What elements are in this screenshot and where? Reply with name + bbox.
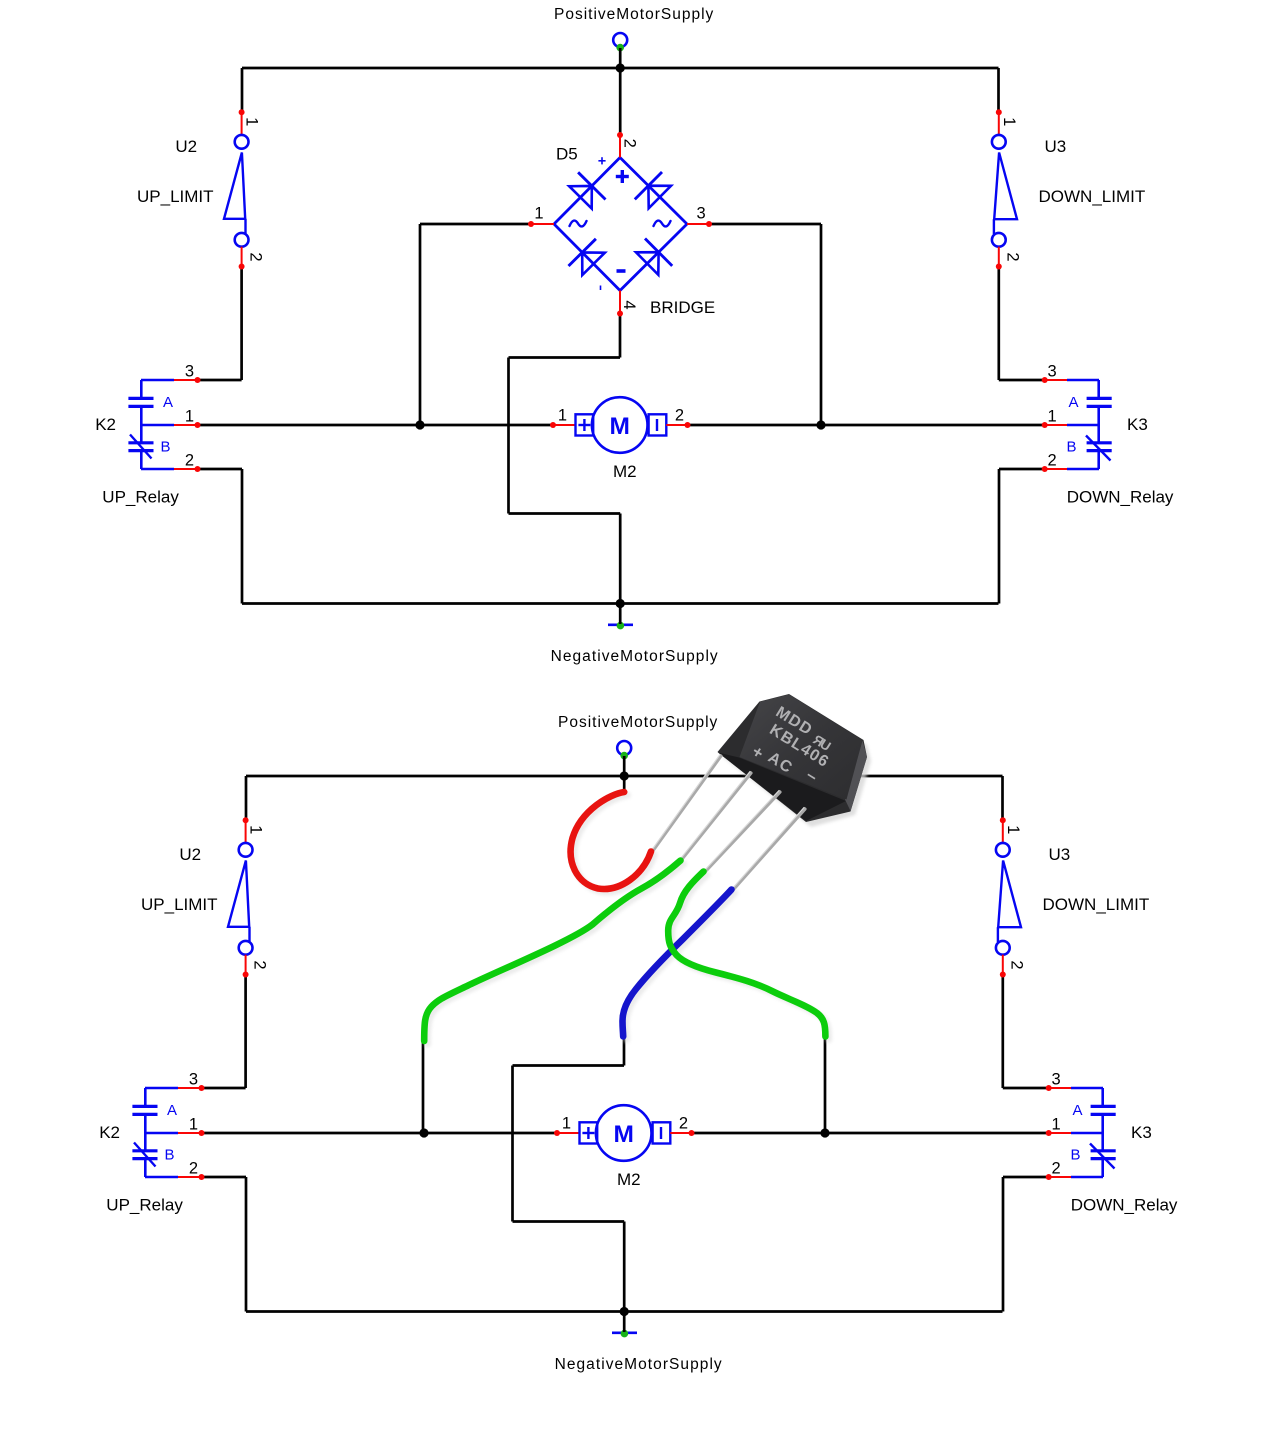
- wire bottom rail to negative terminal: [619, 604, 622, 625]
- svg-text:1: 1: [1000, 117, 1018, 126]
- bridge D5 AC tilde right: [654, 221, 671, 227]
- power port NegativeMotorSupply bar: [612, 1332, 637, 1335]
- bridge D5 diode (AC2 to +): [635, 172, 662, 199]
- wire left trunk to K2 pin 3: [202, 1087, 246, 1090]
- wire left trunk to bottom rail: [241, 469, 244, 604]
- svg-text:UP_LIMIT: UP_LIMIT: [141, 895, 218, 914]
- svg-text:PositiveMotorSupply: PositiveMotorSupply: [554, 6, 714, 23]
- svg-text:B: B: [165, 1147, 175, 1164]
- relay K3 pin 1 bar: [1071, 1132, 1103, 1135]
- switch U3 pin 2 stub: [1002, 955, 1004, 975]
- wire positive terminal to top rail: [623, 756, 626, 776]
- power port PositiveMotorSupply terminal dot: [620, 752, 628, 760]
- svg-text:DOWN_Relay: DOWN_Relay: [1071, 1195, 1178, 1214]
- motor M2 pin 1 stub: [557, 1132, 580, 1134]
- svg-text:UP_Relay: UP_Relay: [102, 487, 179, 506]
- bridge D5 pin 1 stub: [531, 223, 554, 225]
- relay K3 pin 3 bar: [1067, 379, 1099, 382]
- relay K2 pin 2 stub: [174, 468, 198, 470]
- wire node AC1 riser (to green wire): [422, 1041, 425, 1133]
- svg-text:1: 1: [1052, 1116, 1061, 1134]
- junction bottom rail / supply: [620, 1307, 629, 1316]
- switch U3 pin 1 stub: [1002, 820, 1004, 843]
- switch U3 terminal circle 2: [996, 941, 1010, 955]
- relay K2 pin 1 bar: [141, 424, 174, 427]
- switch U2 terminal circle 2: [235, 233, 249, 247]
- switch U2 actuator wedge: [224, 153, 245, 219]
- bridge D5 AC tilde left: [570, 221, 587, 227]
- svg-text:BRIDGE: BRIDGE: [650, 298, 715, 317]
- wire bottom rail to negative terminal: [623, 1312, 626, 1333]
- relay K3 contact B plates: [1091, 1149, 1116, 1152]
- wire bridge pin 1 to node AC1: [420, 223, 531, 226]
- wire right trunk to bottom rail: [1002, 1177, 1005, 1312]
- svg-text:A: A: [1069, 394, 1079, 411]
- svg-text:A: A: [167, 1102, 177, 1119]
- wire top rail to U3 pin 1: [1001, 776, 1004, 821]
- bridge D5 pin 2 stub: [619, 135, 621, 158]
- bridge D5 diode (- to AC2): [645, 239, 672, 266]
- svg-text:A: A: [1073, 1102, 1083, 1119]
- bridge D5 diode (- to AC1): [569, 239, 596, 266]
- wire bottom rail: [246, 1310, 1003, 1313]
- svg-text:U3: U3: [1049, 845, 1071, 864]
- svg-text:1: 1: [189, 1116, 198, 1134]
- switch U2 pin 2 stub: [241, 247, 243, 267]
- relay K3 contact B slash: [1086, 436, 1111, 461]
- relay K2 pin 3 bar: [141, 379, 174, 382]
- relay K3 pin 2 stub: [1049, 1176, 1071, 1178]
- bridge D5 minus mark (inner): [617, 269, 626, 273]
- KBL406 leg 1: [654, 756, 722, 850]
- svg-text:1: 1: [243, 117, 261, 126]
- switch U3 pin 1 stub: [998, 112, 1000, 135]
- svg-text:4: 4: [620, 300, 638, 309]
- relay K2 contact B plates: [128, 441, 153, 444]
- relay K2 contact B slash: [130, 435, 152, 459]
- svg-text:3: 3: [1052, 1071, 1061, 1089]
- motor M2 left terminal box: [576, 414, 594, 435]
- svg-text:M: M: [613, 1121, 633, 1148]
- KBL406 leg 4: [733, 809, 806, 891]
- junction node AC1 / motor row: [419, 1128, 428, 1137]
- switch U3 terminal circle 1: [992, 135, 1006, 149]
- svg-text:B: B: [1067, 439, 1077, 456]
- wire top rail to bridge pin 2: [619, 68, 622, 135]
- svg-text:K2: K2: [95, 415, 116, 434]
- hookup wire red (positive to bridge +): [571, 792, 651, 889]
- hookup wire green (bridge AC2 to node AC2): [668, 872, 825, 1037]
- svg-text:1: 1: [1048, 408, 1057, 426]
- relay K3 vertical lead: [1097, 380, 1100, 398]
- relay K2 vertical lead: [144, 1088, 147, 1106]
- wire right trunk to K3 pin 3: [1003, 1087, 1049, 1090]
- svg-text:UP_Relay: UP_Relay: [106, 1195, 183, 1214]
- wire U2 pin 2 down left trunk: [244, 975, 247, 1089]
- wire top rail to U2 pin 1: [245, 776, 248, 820]
- wire left trunk to K2 pin 3: [198, 379, 242, 382]
- svg-text:2: 2: [246, 252, 264, 261]
- motor M2 pin 1 stub: [553, 424, 576, 426]
- power port NegativeMotorSupply terminal dot: [621, 1330, 629, 1338]
- power port NegativeMotorSupply terminal dot: [617, 622, 625, 630]
- power port PositiveMotorSupply terminal circle: [617, 741, 631, 755]
- svg-text:K3: K3: [1131, 1123, 1152, 1142]
- junction node AC2 / motor row: [816, 420, 825, 429]
- svg-text:1: 1: [1004, 825, 1022, 834]
- relay K2 contact A plates: [128, 397, 153, 400]
- wire right trunk to K3 pin 3: [999, 379, 1045, 382]
- wire positive terminal to top rail: [619, 48, 622, 68]
- relay K3 pin 2 bar: [1067, 468, 1099, 471]
- wire top rail to U2 pin 1: [241, 68, 244, 112]
- switch U2 actuator wedge: [228, 861, 249, 927]
- wire bridge pin 4 jog to bottom rail: [619, 314, 622, 358]
- hookup wire blue (bridge - to DC- drop): [623, 890, 732, 1037]
- KBL406 package markings: [748, 704, 842, 795]
- svg-text:M: M: [609, 413, 629, 440]
- svg-text:D5: D5: [556, 145, 578, 164]
- wire K2 pin 2 to left trunk: [198, 468, 243, 471]
- relay K2 pin 3 bar: [145, 1087, 178, 1090]
- KBL406 leg 3: [704, 792, 780, 873]
- hookup wire shadows: [428, 795, 829, 1044]
- svg-text:2: 2: [621, 139, 639, 148]
- svg-text:U2: U2: [175, 137, 197, 156]
- power port PositiveMotorSupply terminal dot: [616, 44, 624, 52]
- svg-text:1: 1: [247, 825, 265, 834]
- bridge D5 plus mark (inner): [616, 175, 629, 178]
- hookup wire green (bridge AC1 to node AC1): [424, 861, 680, 1042]
- motor M2 pin 2 stub: [666, 424, 687, 426]
- svg-text:2: 2: [1052, 1160, 1061, 1178]
- relay K2 pin 2 bar: [141, 468, 174, 471]
- svg-text:2: 2: [1048, 452, 1057, 470]
- motor M2 right terminal box: [649, 414, 667, 435]
- relay K3 pin 3 stub: [1045, 379, 1067, 381]
- svg-text:M2: M2: [617, 1170, 641, 1189]
- svg-text:2: 2: [189, 1160, 198, 1178]
- wire U3 pin 2 down right trunk: [1001, 975, 1004, 1089]
- motor M2 body circle: [596, 1105, 652, 1161]
- svg-text:1: 1: [558, 407, 567, 425]
- relay K3 contact B slash: [1090, 1144, 1115, 1169]
- svg-text:UP_LIMIT: UP_LIMIT: [137, 187, 214, 206]
- relay K3 pin 1 stub: [1045, 424, 1067, 426]
- svg-text:U3: U3: [1045, 137, 1067, 156]
- relay K2 contact B slash: [134, 1143, 156, 1167]
- wire DC- drop jog to bottom rail (from blue wire): [623, 1037, 626, 1066]
- relay K2 pin 1 stub: [174, 424, 198, 426]
- relay K3 pin 1 bar: [1067, 424, 1099, 427]
- relay K3 vertical lead: [1101, 1088, 1104, 1106]
- bridge D5 diode (AC1 to +): [578, 172, 605, 199]
- wire K2 pin 2 to left trunk: [202, 1176, 247, 1179]
- junction node AC1 / motor row: [415, 420, 424, 429]
- svg-text:A: A: [163, 394, 173, 411]
- svg-text:DOWN_LIMIT: DOWN_LIMIT: [1039, 187, 1146, 206]
- power port NegativeMotorSupply bar: [608, 623, 633, 626]
- svg-text:2: 2: [185, 452, 194, 470]
- relay K3 contact B plates: [1087, 441, 1112, 444]
- svg-text:B: B: [1071, 1147, 1081, 1164]
- svg-text:1: 1: [185, 408, 194, 426]
- relay K3 contact A plates: [1091, 1105, 1116, 1108]
- KBL406 package shadow: [723, 699, 871, 827]
- relay K3 pin 2 bar: [1071, 1176, 1103, 1179]
- relay K2 pin 3 stub: [178, 1087, 202, 1089]
- svg-text:2: 2: [675, 407, 684, 425]
- svg-text:3: 3: [697, 205, 706, 223]
- svg-text:2: 2: [250, 960, 268, 969]
- wire top rail: [242, 67, 999, 70]
- svg-text:DOWN_Relay: DOWN_Relay: [1067, 487, 1174, 506]
- switch U2 pin 2 stub: [245, 955, 247, 975]
- bridge D5 small plus mark pin2: [598, 160, 605, 162]
- relay K2 contact B plates: [132, 1149, 157, 1152]
- bridge D5 pin 4 stub: [619, 291, 621, 314]
- KBL406 package leg strip side: [718, 753, 846, 822]
- wire top rail: [246, 775, 1003, 778]
- switch U3 actuator wedge: [998, 861, 1021, 928]
- wire right trunk to bottom rail: [998, 469, 1001, 604]
- relay K3 pin 1 stub: [1049, 1132, 1071, 1134]
- svg-text:3: 3: [189, 1071, 198, 1089]
- svg-text:1: 1: [534, 205, 543, 223]
- KBL406 package front face: [740, 695, 863, 800]
- power port PositiveMotorSupply terminal circle: [613, 33, 627, 47]
- wire K3 pin 2 to right trunk: [999, 468, 1045, 471]
- svg-text:PositiveMotorSupply: PositiveMotorSupply: [558, 714, 718, 731]
- svg-text:K2: K2: [99, 1123, 120, 1142]
- relay K3 contact A plates: [1087, 397, 1112, 400]
- svg-text:3: 3: [1048, 363, 1057, 381]
- svg-text:U2: U2: [179, 845, 201, 864]
- wire bottom rail: [242, 602, 999, 605]
- wire motor row left: [198, 424, 554, 427]
- KBL406 package body silhouette: [718, 694, 868, 822]
- wire U2 pin 2 down left trunk: [240, 267, 243, 381]
- relay K2 contact A plates: [132, 1105, 157, 1108]
- wire motor row right: [692, 1132, 1049, 1135]
- switch U3 terminal circle 2: [992, 233, 1006, 247]
- relay K2 pin 3 stub: [174, 379, 198, 381]
- relay K2 pin 1 bar: [145, 1132, 178, 1135]
- motor M2 pin 2 stub: [670, 1132, 691, 1134]
- junction node AC2 / motor row: [820, 1128, 829, 1137]
- junction bottom rail / supply: [616, 599, 625, 608]
- junction top rail / supply: [620, 771, 629, 780]
- KBL406 leg 2: [681, 773, 752, 861]
- motor M2 right terminal box: [653, 1122, 671, 1143]
- relay K2 vertical lead: [140, 380, 143, 398]
- svg-text:B: B: [161, 439, 171, 456]
- svg-text:NegativeMotorSupply: NegativeMotorSupply: [551, 648, 719, 665]
- switch U2 terminal circle 1: [235, 135, 249, 149]
- relay K2 pin 2 bar: [145, 1176, 178, 1179]
- wire node AC2 riser (to green wire): [824, 1035, 827, 1133]
- svg-text:2: 2: [679, 1115, 688, 1133]
- svg-text:NegativeMotorSupply: NegativeMotorSupply: [555, 1356, 723, 1373]
- relay K2 pin 1 stub: [178, 1132, 202, 1134]
- motor M2 body circle: [592, 397, 648, 453]
- relay K3 pin 2 stub: [1045, 468, 1067, 470]
- wire bridge pin 3 to node AC2: [709, 223, 821, 226]
- wire top rail to U3 pin 1: [997, 68, 1000, 113]
- switch U2 pin 1 stub: [245, 820, 247, 843]
- svg-text:M2: M2: [613, 462, 637, 481]
- KBL406 package right side face: [845, 741, 867, 812]
- wire motor row left: [202, 1132, 558, 1135]
- wire U3 pin 2 down right trunk: [997, 267, 1000, 381]
- switch U2 terminal circle 1: [239, 843, 253, 857]
- motor M2 left terminal box: [580, 1122, 598, 1143]
- svg-text:K3: K3: [1127, 415, 1148, 434]
- wire motor row right: [688, 424, 1045, 427]
- bridge rectifier D5 diamond body: [554, 158, 687, 291]
- switch U2 terminal circle 2: [239, 941, 253, 955]
- svg-text:DOWN_LIMIT: DOWN_LIMIT: [1043, 895, 1150, 914]
- svg-text:2: 2: [1004, 252, 1022, 261]
- junction top rail / supply: [616, 63, 625, 72]
- switch U3 actuator wedge: [994, 153, 1017, 220]
- wire positive junction tail (to red wire): [623, 776, 626, 794]
- switch U3 pin 2 stub: [998, 247, 1000, 267]
- wire K3 pin 2 to right trunk: [1003, 1176, 1049, 1179]
- wire left trunk to bottom rail: [245, 1177, 248, 1312]
- relay K3 pin 3 stub: [1049, 1087, 1071, 1089]
- svg-text:3: 3: [185, 363, 194, 381]
- switch U3 terminal circle 1: [996, 843, 1010, 857]
- bridge D5 pin 3 stub: [687, 223, 709, 225]
- svg-text:2: 2: [1008, 960, 1026, 969]
- relay K2 pin 2 stub: [178, 1176, 202, 1178]
- relay K3 pin 3 bar: [1071, 1087, 1103, 1090]
- switch U2 pin 1 stub: [241, 112, 243, 135]
- bridge D5 small minus mark pin4: [600, 286, 602, 291]
- svg-text:1: 1: [562, 1115, 571, 1133]
